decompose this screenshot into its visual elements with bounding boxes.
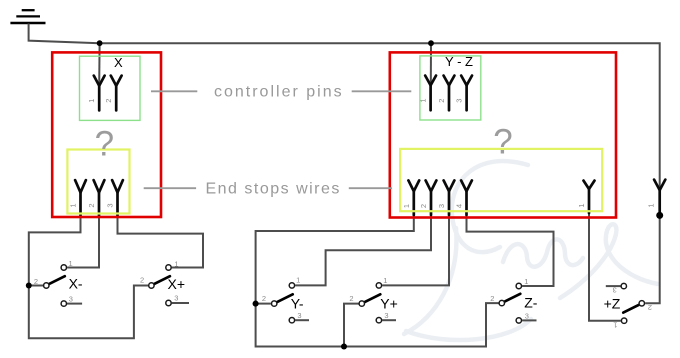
ground (10, 10, 45, 23)
red box X controller (52, 52, 161, 217)
wire Y- terminal 3 stub (295, 319, 309, 321)
pin number labels X endstop wires (69, 203, 115, 207)
svg-text:Y-: Y- (291, 295, 304, 311)
pin number labels Z- (490, 277, 529, 321)
svg-text:1: 1 (613, 321, 617, 330)
svg-text:X-: X- (69, 276, 83, 292)
svg-text:2: 2 (87, 203, 96, 207)
wire ground rail (29, 24, 660, 304)
svg-text:3: 3 (106, 203, 115, 207)
switch Y+ (359, 283, 382, 323)
svg-text:3: 3 (69, 295, 73, 304)
wire branch to Y+ common (344, 304, 359, 347)
svg-text:2: 2 (349, 294, 353, 303)
pin number labels X- (34, 259, 73, 304)
connector pin X1-1 (94, 76, 105, 111)
svg-text:1: 1 (577, 203, 586, 207)
wire X+ terminal 3 stub (172, 302, 189, 304)
svg-text:2: 2 (437, 99, 446, 103)
wire net YZ endstop pin3 to Y+ terminal 1 (382, 200, 449, 285)
wire Y+ terminal 3 stub (382, 319, 396, 321)
svg-text:3: 3 (384, 311, 388, 320)
svg-text:1: 1 (419, 98, 428, 102)
junction X common (26, 283, 32, 289)
svg-text:1: 1 (296, 276, 300, 285)
svg-text:3: 3 (297, 311, 301, 320)
wire branch to X- common (29, 285, 43, 287)
svg-text:2: 2 (34, 277, 38, 286)
junction Y common (253, 301, 259, 307)
wire net X endstop pin2 to X- terminal 1 (67, 200, 99, 268)
connector pin XE-1 (75, 180, 86, 216)
connector pin YZE-4 (461, 180, 472, 215)
connector pin YZ1-3 (461, 76, 472, 111)
svg-text:1: 1 (402, 204, 411, 208)
svg-text:3: 3 (613, 285, 617, 294)
wire net YZ endstop pin2 to Y- terminal 1 (295, 200, 431, 285)
pin number labels YZ endstop wires (402, 203, 586, 208)
svg-text:3: 3 (437, 204, 446, 208)
svg-text:2: 2 (648, 303, 652, 312)
wire net X endstop pin1 to X- common and X+ common (29, 200, 148, 338)
svg-text:1: 1 (383, 276, 387, 285)
wire Z- terminal 3 stub (522, 319, 536, 321)
switch X- (44, 265, 67, 307)
connector pin XE-2 (94, 180, 105, 216)
connector pin YZ1-1 (425, 76, 436, 111)
svg-text:2: 2 (262, 294, 266, 303)
pin number labels Y+ (349, 276, 388, 320)
svg-text:1: 1 (69, 259, 73, 268)
switch +Z (621, 283, 644, 323)
switch Z- (499, 283, 521, 323)
svg-text:2: 2 (140, 276, 144, 285)
red box YZ controller (390, 52, 616, 217)
junction right edge (656, 212, 663, 219)
svg-text:3: 3 (174, 294, 178, 303)
connector pin YZE-3 (444, 180, 455, 215)
svg-text:4: 4 (455, 204, 464, 208)
wire branch to Y- common (256, 303, 271, 305)
svg-text:+Z: +Z (604, 296, 621, 312)
wire net YZ endstop pin4 to Z- terminal 1 (467, 200, 554, 286)
wire net X endstop pin3 to X+ terminal 1 (118, 200, 204, 268)
connector pin YZE-2 (426, 180, 437, 215)
wire drop to Y-Z controller pin 1 (430, 43, 432, 85)
watermark signature (404, 161, 658, 340)
svg-text:1: 1 (69, 203, 78, 207)
svg-text:X: X (114, 55, 123, 70)
yellow box YZ endstop wires (400, 149, 602, 211)
wire net YZ endstop pin1 common rail (256, 200, 499, 347)
wire +Z terminal 3 stub (606, 285, 621, 287)
switch Y- (272, 283, 295, 323)
callout End stops wires (144, 180, 392, 197)
connector pin XE-3 (112, 180, 123, 216)
connector pin YZE-5 (584, 181, 595, 213)
wire X- terminal 3 stub (67, 303, 82, 305)
svg-text:1: 1 (524, 277, 528, 286)
pin number labels X connector (87, 99, 113, 103)
svg-text:1: 1 (174, 259, 178, 268)
connector pin X1-2 (111, 76, 122, 111)
svg-text:2: 2 (104, 99, 113, 103)
svg-text:2: 2 (419, 204, 428, 208)
pin number labels X+ (140, 259, 179, 302)
connector pin YZE-1 (408, 180, 419, 215)
yellow box X endstop wires (67, 150, 129, 214)
svg-text:?: ? (95, 125, 114, 164)
svg-text:?: ? (493, 122, 512, 161)
wire net YZ endstop pin5 to +Z terminal 1 (589, 195, 621, 321)
junction top middle (428, 40, 434, 46)
connector pin YZ1-2 (444, 76, 455, 111)
svg-text:Y+: Y+ (380, 295, 398, 311)
svg-text:End stops wires: End stops wires (205, 180, 340, 197)
pin number labels YZ connector (419, 98, 464, 102)
svg-text:2: 2 (490, 294, 494, 303)
junction bottom rail (341, 343, 347, 349)
pin number labels Y- (262, 276, 302, 321)
svg-text:Z-: Z- (524, 295, 538, 311)
green box YZ pins (420, 56, 481, 120)
svg-text:3: 3 (455, 99, 464, 103)
green box X pins (80, 56, 141, 120)
wire drop to X controller pin 1 (98, 43, 100, 85)
svg-text:3: 3 (525, 311, 529, 320)
callout controller pins (151, 84, 411, 101)
svg-text:1: 1 (87, 99, 96, 103)
pin number labels +Z rotated (613, 285, 652, 329)
svg-text:Y - Z: Y - Z (445, 54, 473, 69)
connector pin right edge (654, 180, 665, 214)
svg-text:controller pins: controller pins (214, 84, 344, 101)
svg-text:1: 1 (646, 203, 655, 207)
switch X+ (149, 265, 172, 306)
svg-text:X+: X+ (168, 276, 186, 292)
junction top left (97, 40, 103, 46)
